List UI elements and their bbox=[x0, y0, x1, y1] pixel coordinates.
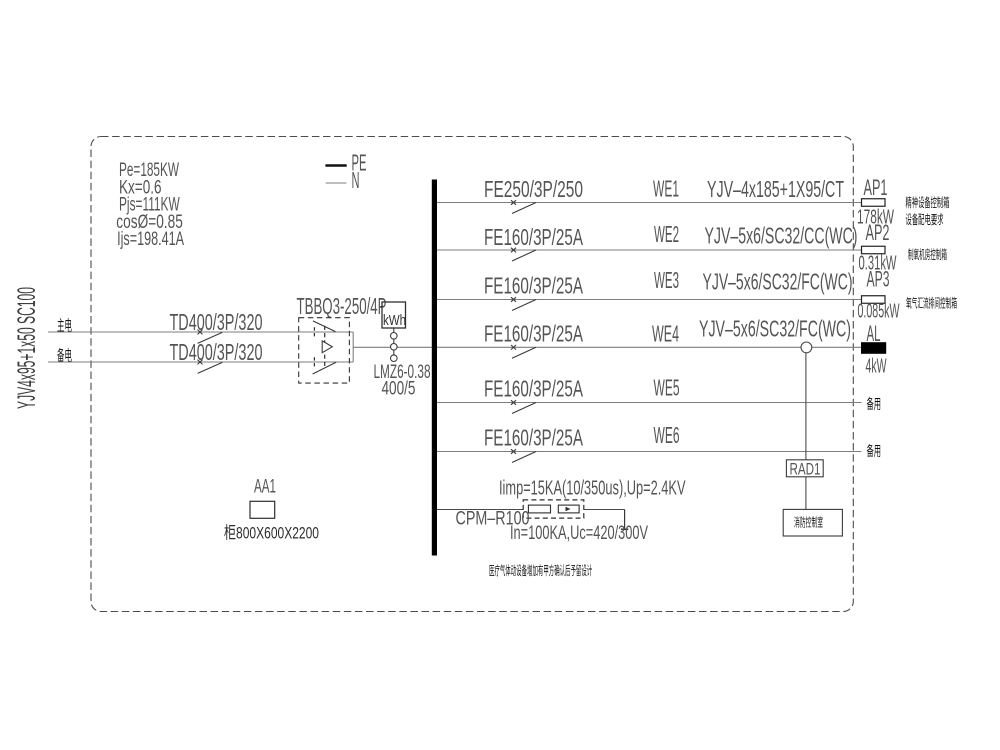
wire: feeder WE5 bbox=[437, 402, 862, 404]
wire: tap drop to RAD1 bbox=[805, 353, 807, 460]
cabinet AA1 outline box bbox=[250, 501, 275, 518]
meter kWh box bbox=[382, 302, 406, 328]
CT coil 2 bbox=[391, 344, 398, 351]
breaker QF1 (main incoming) bbox=[198, 330, 223, 344]
wire: SPD branch from bus bbox=[437, 509, 625, 511]
svg-text:氧气汇流排间控制箱: 氧气汇流排间控制箱 bbox=[906, 295, 957, 311]
svg-text:FE160/3P/25A: FE160/3P/25A bbox=[484, 424, 583, 450]
wire: feeder WE1 bbox=[437, 202, 862, 204]
wire: meter drop bbox=[393, 328, 395, 362]
svg-text:TBBQ3-250/4P: TBBQ3-250/4P bbox=[297, 293, 387, 319]
svg-text:400/5: 400/5 bbox=[382, 378, 416, 400]
svg-text:WE5: WE5 bbox=[654, 374, 680, 400]
svg-text:柜800X600X2200: 柜800X600X2200 bbox=[224, 524, 319, 543]
breaker WE1 FE250/3P/250 bbox=[511, 200, 536, 213]
wire: feeder WE6 bbox=[437, 451, 862, 453]
svg-text:备用: 备用 bbox=[867, 395, 882, 413]
CT coil 1 bbox=[391, 333, 398, 340]
legend: PE conductor sample line bbox=[325, 164, 346, 167]
wire: main incoming line bbox=[48, 331, 353, 333]
svg-text:0.085kW: 0.085kW bbox=[858, 301, 900, 323]
wire: feeder WE3 bbox=[437, 299, 862, 301]
svg-text:WE6: WE6 bbox=[654, 422, 680, 448]
svg-text:WE1: WE1 bbox=[653, 176, 679, 202]
svg-text:YJV–5x6/SC32/FC(WC): YJV–5x6/SC32/FC(WC) bbox=[703, 269, 853, 295]
breaker WE4 FE160/3P/25A bbox=[511, 345, 536, 358]
SPD F1 module 1 bbox=[528, 505, 550, 513]
svg-text:WE4: WE4 bbox=[652, 321, 679, 347]
SPD F1 dashed enclosure bbox=[523, 500, 584, 518]
svg-text:WE2: WE2 bbox=[654, 221, 679, 247]
svg-text:YJV4x95+1x50 SC100: YJV4x95+1x50 SC100 bbox=[13, 287, 41, 409]
ATS U1 linkage dashed line bbox=[324, 326, 326, 368]
svg-text:kWh: kWh bbox=[383, 313, 406, 329]
ATS U1 lower contact blade bbox=[313, 362, 337, 374]
breaker WE3 FE160/3P/25A bbox=[511, 297, 536, 310]
svg-text:医疗气体动设备增加有甲方确认后予留设计: 医疗气体动设备增加有甲方确认后予留设计 bbox=[489, 563, 592, 579]
svg-text:YJV–5x6/SC32/CC(WC): YJV–5x6/SC32/CC(WC) bbox=[705, 223, 858, 249]
svg-text:N: N bbox=[352, 167, 360, 193]
svg-text:FE160/3P/25A: FE160/3P/25A bbox=[484, 273, 583, 299]
CT coil 3 bbox=[391, 355, 398, 362]
panel AL solid box bbox=[861, 342, 886, 354]
svg-text:AA1: AA1 bbox=[254, 477, 276, 498]
svg-text:设备配电要求: 设备配电要求 bbox=[906, 211, 944, 227]
svg-text:TD400/3P/320: TD400/3P/320 bbox=[170, 339, 263, 365]
node: fire control room box 消防控制室 bbox=[783, 509, 842, 536]
panel AP2 box bbox=[862, 246, 886, 254]
ATS U1 transfer triangle bbox=[322, 341, 332, 353]
svg-text:AP3: AP3 bbox=[867, 267, 890, 292]
breaker WE5 FE160/3P/25A bbox=[511, 400, 536, 413]
svg-text:YJV–4x185+1X95/CT: YJV–4x185+1X95/CT bbox=[707, 176, 844, 202]
wire: standby incoming line bbox=[48, 361, 353, 363]
svg-text:备用: 备用 bbox=[867, 442, 882, 460]
svg-text:AP1: AP1 bbox=[864, 175, 888, 200]
panel AP3 box bbox=[862, 296, 886, 304]
svg-text:4kW: 4kW bbox=[866, 356, 887, 378]
svg-text:FE160/3P/25A: FE160/3P/25A bbox=[484, 321, 583, 347]
svg-text:Ijs=198.41A: Ijs=198.41A bbox=[117, 229, 184, 250]
svg-text:FE160/3P/25A: FE160/3P/25A bbox=[484, 224, 583, 250]
legend: N conductor sample line bbox=[326, 182, 347, 184]
node: load parameters text block bbox=[116, 160, 184, 250]
breaker QF2 (standby incoming) bbox=[198, 360, 223, 374]
SPD F1 module 2 arrow tip bbox=[566, 507, 571, 511]
ATS U1 upper pole tick bbox=[313, 327, 315, 337]
wire: ATS output to bus bbox=[353, 346, 434, 348]
svg-text:RAD1: RAD1 bbox=[790, 460, 821, 479]
bus: main distribution busbar bbox=[432, 180, 437, 556]
ATS U1 body right edge bbox=[352, 332, 354, 362]
ground: SPD earth electrode bbox=[621, 528, 628, 530]
ATS U1 dashed enclosure bbox=[299, 318, 350, 383]
wire: feeder WE2 bbox=[437, 249, 862, 251]
wire: SPD earth drop bbox=[624, 510, 626, 529]
svg-text:FE160/3P/25A: FE160/3P/25A bbox=[484, 376, 583, 402]
svg-text:消防控制室: 消防控制室 bbox=[794, 515, 823, 530]
ATS U1 upper contact blade bbox=[313, 321, 336, 332]
svg-text:In=100KA,Uc=420/300V: In=100KA,Uc=420/300V bbox=[510, 523, 648, 544]
breaker WE6 FE160/3P/25A bbox=[511, 449, 536, 462]
svg-text:FE250/3P/250: FE250/3P/250 bbox=[484, 176, 583, 202]
wire: RAD1 to fire control room bbox=[805, 477, 807, 510]
svg-text:AP2: AP2 bbox=[866, 220, 890, 245]
panel AP1 box bbox=[862, 199, 886, 207]
svg-text:Iimp=15KA(10/350us),Up=2.4KV: Iimp=15KA(10/350us),Up=2.4KV bbox=[499, 478, 686, 500]
wire: feeder WE4 bbox=[437, 346, 861, 348]
svg-text:制氧机房控制箱: 制氧机房控制箱 bbox=[908, 246, 947, 262]
svg-text:YJV–5x6/SC32/FC(WC): YJV–5x6/SC32/FC(WC) bbox=[699, 316, 851, 342]
breaker WE2 FE160/3P/25A bbox=[511, 248, 536, 261]
frame: outer dashed boundary bbox=[91, 137, 853, 612]
device RAD1 box bbox=[786, 460, 823, 477]
SPD F1 module 2 with arrow bbox=[558, 505, 579, 513]
svg-text:WE3: WE3 bbox=[654, 267, 679, 293]
svg-text:TD400/3P/320: TD400/3P/320 bbox=[170, 309, 263, 335]
ATS U1 lower pole tick bbox=[313, 357, 315, 367]
node: WE4 tap circle bbox=[801, 342, 812, 353]
svg-text:精神设备控制箱: 精神设备控制箱 bbox=[906, 194, 950, 210]
